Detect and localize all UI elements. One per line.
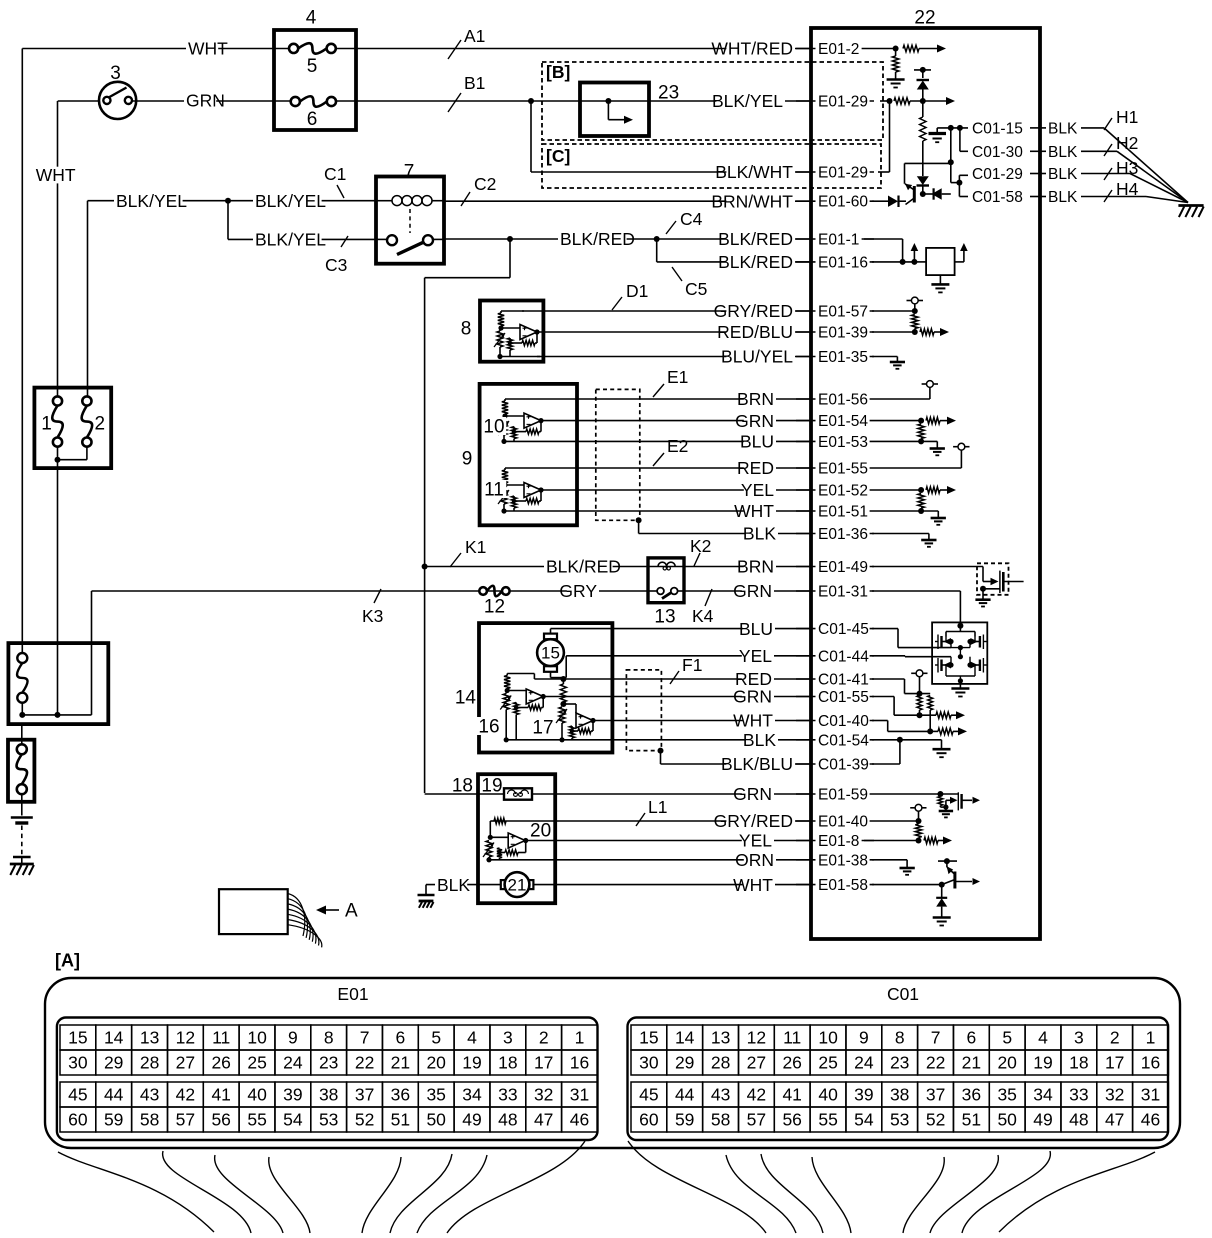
node H1	[1104, 107, 1138, 130]
svg-text:F1: F1	[682, 655, 702, 675]
amplifier 16	[477, 674, 811, 743]
ECU diode to base	[923, 188, 951, 199]
svg-text:60: 60	[68, 1110, 88, 1130]
svg-text:BLK/RED: BLK/RED	[718, 229, 793, 249]
wire GRN switch to fuse 6	[132, 91, 291, 111]
pin E01-36	[796, 526, 874, 543]
svg-text:C4: C4	[680, 209, 703, 229]
ignition relay box (lower left)	[8, 643, 108, 724]
svg-text:K1: K1	[465, 537, 486, 557]
svg-text:6: 6	[307, 109, 318, 130]
node D1	[612, 281, 648, 310]
svg-text:E01-16: E01-16	[818, 254, 868, 271]
svg-text:51: 51	[391, 1110, 410, 1130]
svg-text:23: 23	[890, 1053, 909, 1073]
svg-text:E01: E01	[337, 984, 368, 1004]
pin E01-59	[796, 787, 874, 804]
svg-text:8: 8	[895, 1028, 905, 1048]
node K3	[362, 589, 383, 626]
node C2 / wire BRN/WHT to E01-60	[444, 174, 811, 211]
svg-text:13: 13	[140, 1028, 159, 1048]
ECU switch contact E01-55	[874, 443, 970, 468]
svg-text:3: 3	[1074, 1028, 1084, 1048]
node E2	[653, 436, 688, 466]
ECU circuit E01-54/53	[874, 417, 956, 456]
fuse 5	[289, 43, 336, 77]
ECU circuit E01-52/51	[874, 486, 956, 525]
wire B1 fuse6 to E01-29	[336, 98, 811, 104]
ECU circuit C01-40	[872, 721, 967, 736]
svg-text:37: 37	[355, 1085, 374, 1105]
svg-text:GRN: GRN	[735, 411, 774, 431]
node E1	[653, 367, 688, 397]
svg-text:26: 26	[782, 1053, 801, 1073]
svg-text:33: 33	[498, 1085, 517, 1105]
svg-text:RED: RED	[737, 458, 774, 478]
svg-text:18: 18	[1069, 1053, 1088, 1073]
pin C01-44	[796, 648, 874, 665]
svg-text:E01-51: E01-51	[818, 504, 868, 521]
relay 13	[648, 558, 684, 628]
svg-text:56: 56	[782, 1110, 801, 1130]
svg-text:19: 19	[462, 1053, 481, 1073]
svg-text:6: 6	[967, 1028, 977, 1048]
svg-text:E01-8: E01-8	[818, 833, 859, 850]
wire BLK/WHT to E01-29	[531, 101, 811, 182]
svg-text:40: 40	[818, 1085, 838, 1105]
pin E01-31	[796, 584, 874, 601]
connector C01 pin grid 1-60	[631, 1025, 1168, 1132]
svg-text:10: 10	[818, 1028, 838, 1048]
svg-text:48: 48	[1069, 1110, 1088, 1130]
svg-text:18: 18	[498, 1053, 517, 1073]
svg-text:BRN: BRN	[737, 389, 774, 409]
amplifier 20	[483, 818, 553, 862]
fuse 2	[82, 396, 105, 446]
wire WHT to E01-58	[533, 875, 811, 895]
wire RED to E01-55	[524, 458, 811, 478]
svg-text:13: 13	[654, 607, 675, 628]
wire ORN to E01-38 bottom rail	[489, 850, 811, 870]
pin E01-29	[796, 165, 874, 182]
switch 3 (ignition switch)	[58, 63, 137, 119]
svg-text:20: 20	[530, 821, 551, 842]
node L1	[636, 797, 667, 826]
svg-text:E01-1: E01-1	[818, 232, 859, 249]
svg-text:31: 31	[1141, 1085, 1160, 1105]
svg-text:47: 47	[1105, 1110, 1124, 1130]
svg-text:30: 30	[639, 1053, 659, 1073]
svg-text:23: 23	[319, 1053, 338, 1073]
connector component A	[219, 889, 358, 947]
svg-text:57: 57	[747, 1110, 766, 1130]
wire YEL to C01-44	[551, 646, 812, 678]
svg-text:E01-60: E01-60	[818, 194, 868, 211]
svg-text:51: 51	[962, 1110, 981, 1130]
battery symbol	[11, 818, 33, 858]
amplifier 17	[531, 679, 596, 742]
ECU ground C01-54/39	[872, 737, 951, 764]
svg-text:52: 52	[355, 1110, 374, 1130]
svg-text:E01-35: E01-35	[818, 349, 868, 366]
svg-text:53: 53	[319, 1110, 338, 1130]
svg-text:48: 48	[498, 1110, 517, 1130]
svg-text:24: 24	[283, 1053, 303, 1073]
wire WHT battery feed	[22, 39, 811, 653]
svg-text:32: 32	[534, 1085, 553, 1105]
svg-text:15: 15	[68, 1028, 87, 1048]
pin C01-58	[970, 189, 1078, 206]
pin C01-41	[796, 672, 874, 689]
wire BRN to E01-56	[524, 389, 811, 409]
wire fuse outputs join	[55, 447, 87, 715]
svg-text:41: 41	[782, 1085, 801, 1105]
pin E01-1	[796, 232, 874, 249]
svg-text:WHT: WHT	[733, 711, 773, 731]
ECU circuit E01-29 zener clamp	[880, 67, 955, 105]
coil element in relay box	[17, 653, 28, 715]
svg-text:55: 55	[247, 1110, 266, 1130]
svg-text:GRN: GRN	[186, 91, 225, 111]
svg-text:BLK: BLK	[1048, 166, 1078, 183]
actuator box 14	[455, 623, 613, 752]
pin C01-29	[970, 166, 1078, 183]
connector E01 pin grid 1-60	[60, 1025, 597, 1132]
svg-text:BLK/YEL: BLK/YEL	[712, 91, 783, 111]
svg-text:C01-58: C01-58	[972, 189, 1023, 206]
svg-text:44: 44	[104, 1085, 124, 1105]
wire BLU to C01-45	[551, 619, 812, 639]
svg-text:GRN: GRN	[733, 581, 772, 601]
component 23 (clutch switch)	[580, 83, 679, 137]
ECU transistor (driver)	[905, 163, 951, 204]
wire GRY with fuse 12	[92, 581, 649, 601]
connector C01 block	[628, 1018, 1169, 1141]
svg-text:7: 7	[404, 162, 415, 183]
svg-text:[B]: [B]	[546, 62, 570, 82]
svg-text:2: 2	[95, 414, 106, 435]
relay box bottom rail	[19, 712, 91, 718]
speed sensor 19	[481, 776, 532, 800]
pin E01-51	[796, 504, 874, 521]
svg-text:GRY: GRY	[559, 581, 597, 601]
amplifier 11	[482, 468, 544, 514]
pin C01-55	[796, 689, 874, 706]
svg-text:52: 52	[926, 1110, 945, 1130]
svg-text:35: 35	[426, 1085, 445, 1105]
svg-text:L1: L1	[648, 797, 667, 817]
node C3	[325, 236, 348, 275]
wire GRY feed vertical	[91, 591, 93, 715]
svg-text:WHT: WHT	[188, 39, 228, 59]
svg-text:12: 12	[484, 597, 505, 618]
svg-text:BLK: BLK	[743, 730, 776, 750]
pin E01-49	[796, 559, 874, 576]
svg-text:22: 22	[926, 1053, 945, 1073]
wire GRN to C01-55	[542, 687, 811, 707]
ECU H-bridge motor driver	[932, 622, 987, 696]
wire GRN to E01-59	[425, 784, 811, 804]
svg-text:25: 25	[818, 1053, 837, 1073]
svg-text:50: 50	[426, 1110, 446, 1130]
svg-text:A1: A1	[464, 26, 485, 46]
wire BLK motor ground	[426, 875, 501, 895]
node K1	[450, 537, 486, 567]
svg-text:2: 2	[1110, 1028, 1120, 1048]
svg-text:35: 35	[997, 1085, 1016, 1105]
svg-text:4: 4	[306, 8, 317, 29]
svg-text:57: 57	[176, 1110, 195, 1130]
svg-text:59: 59	[675, 1110, 694, 1130]
motor 21	[501, 872, 534, 897]
svg-text:20: 20	[426, 1053, 446, 1073]
pin E01-8	[796, 833, 874, 850]
wire BLK/RED to relay 13 coil	[425, 557, 648, 577]
sensor box 9	[462, 384, 577, 525]
svg-text:42: 42	[747, 1085, 766, 1105]
connector housing	[45, 978, 1180, 1148]
wire BLK/BLU to C01-39	[661, 751, 812, 775]
svg-text:GRY/RED: GRY/RED	[714, 301, 793, 321]
svg-text:WHT/RED: WHT/RED	[711, 39, 793, 59]
connector C01 label	[887, 984, 919, 1004]
svg-text:11: 11	[212, 1028, 230, 1048]
node C1	[324, 164, 346, 198]
svg-text:H3: H3	[1116, 158, 1138, 178]
svg-text:12: 12	[176, 1028, 195, 1048]
svg-text:56: 56	[211, 1110, 230, 1130]
svg-text:GRN: GRN	[733, 784, 772, 804]
svg-text:E01-52: E01-52	[818, 483, 868, 500]
svg-text:16: 16	[1141, 1053, 1160, 1073]
ECU ground node C01-15/30	[929, 125, 969, 142]
shield box E1/E2	[596, 389, 642, 523]
connector E01 block	[57, 1018, 598, 1141]
svg-text:19: 19	[1033, 1053, 1052, 1073]
svg-text:29: 29	[104, 1053, 123, 1073]
svg-text:29: 29	[675, 1053, 694, 1073]
svg-text:5: 5	[307, 56, 318, 77]
ECU resistor to transistor	[917, 101, 930, 197]
svg-text:C01-40: C01-40	[818, 713, 869, 730]
svg-text:E01-57: E01-57	[818, 304, 868, 321]
pin C01-15	[970, 120, 1078, 137]
svg-text:54: 54	[283, 1110, 303, 1130]
svg-text:GRN: GRN	[733, 687, 772, 707]
svg-text:9: 9	[462, 449, 473, 470]
svg-text:H2: H2	[1116, 133, 1138, 153]
svg-text:10: 10	[483, 417, 504, 438]
ECU MOSFET E01-59	[874, 791, 980, 817]
wire WHT vertical to fuse 1	[36, 101, 76, 396]
wire WHT to C01-40	[593, 711, 811, 731]
motor 15	[537, 634, 564, 672]
fusible link box	[8, 740, 34, 802]
relay 7	[376, 162, 444, 264]
pin E01-54	[796, 413, 874, 430]
wire C01-45 into bridge	[872, 629, 951, 648]
pin E01-39	[796, 325, 874, 342]
svg-text:WHT: WHT	[36, 165, 76, 185]
svg-text:11: 11	[783, 1028, 801, 1048]
svg-text:49: 49	[1033, 1110, 1052, 1130]
svg-text:14: 14	[675, 1028, 695, 1048]
svg-text:8: 8	[461, 319, 472, 340]
svg-text:44: 44	[675, 1085, 695, 1105]
svg-text:15: 15	[541, 644, 560, 663]
svg-text:27: 27	[176, 1053, 195, 1073]
svg-text:C01: C01	[887, 984, 919, 1004]
pin E01-35	[796, 349, 874, 366]
wire BLK/RED to E01-16	[657, 239, 811, 272]
svg-text:26: 26	[211, 1053, 230, 1073]
ECU circuit E01-40/8	[864, 804, 952, 844]
svg-text:E01-54: E01-54	[818, 413, 868, 430]
fuse 6	[291, 96, 336, 130]
svg-text:BLK/RED: BLK/RED	[560, 229, 635, 249]
svg-text:GRY/RED: GRY/RED	[714, 811, 793, 831]
wire BLK/RED relay output	[444, 229, 811, 249]
svg-text:B1: B1	[464, 73, 485, 93]
svg-text:E01-59: E01-59	[818, 787, 868, 804]
svg-text:58: 58	[711, 1110, 730, 1130]
wire GRY/RED to E01-57	[522, 301, 811, 321]
svg-text:E01-38: E01-38	[818, 852, 868, 869]
node A1	[448, 26, 485, 59]
ECU box 22	[811, 8, 1040, 939]
pin C01-40	[796, 713, 874, 730]
svg-text:36: 36	[391, 1085, 410, 1105]
dashed option box [B]	[542, 62, 883, 140]
svg-text:WHT: WHT	[734, 501, 774, 521]
svg-text:C01-39: C01-39	[818, 757, 869, 774]
svg-text:BLK/WHT: BLK/WHT	[715, 162, 793, 182]
svg-text:11: 11	[484, 480, 504, 501]
pin E01-60	[796, 194, 874, 211]
wires H1-H4 to chassis ground	[1081, 128, 1188, 203]
svg-text:6: 6	[396, 1028, 406, 1048]
svg-text:E01-2: E01-2	[818, 41, 859, 58]
svg-text:36: 36	[962, 1085, 981, 1105]
svg-text:1: 1	[1146, 1028, 1156, 1048]
svg-text:1: 1	[41, 414, 52, 435]
svg-text:BLK: BLK	[743, 524, 776, 544]
pin E01-29	[796, 94, 874, 111]
svg-text:C01-45: C01-45	[818, 621, 869, 638]
pin E01-52	[796, 483, 874, 500]
svg-text:16: 16	[570, 1053, 589, 1073]
svg-text:40: 40	[247, 1085, 267, 1105]
wire YEL to E01-8	[526, 831, 811, 851]
ECU ground E01-38	[872, 860, 915, 875]
svg-text:3: 3	[110, 63, 121, 84]
svg-text:E01-40: E01-40	[818, 814, 868, 831]
pin E01-16	[796, 254, 874, 271]
svg-text:46: 46	[570, 1110, 589, 1130]
ECU MOSFET E01-49	[872, 563, 1024, 606]
wire BLK/YEL label	[712, 91, 785, 111]
svg-text:BRN: BRN	[737, 557, 774, 577]
wire BLU/YEL to E01-35	[537, 347, 811, 367]
svg-text:9: 9	[859, 1028, 869, 1048]
svg-text:5: 5	[431, 1028, 441, 1048]
svg-text:55: 55	[818, 1110, 837, 1130]
svg-text:34: 34	[1033, 1085, 1053, 1105]
ECU ground E01-35	[872, 357, 905, 369]
pin E01-55	[796, 461, 874, 478]
svg-text:54: 54	[854, 1110, 874, 1130]
svg-text:E01-53: E01-53	[818, 434, 868, 451]
svg-text:BLU: BLU	[740, 432, 774, 452]
chassis ground (H wires)	[1178, 206, 1203, 218]
ECU wire E01-31 to H-bridge	[872, 591, 960, 626]
svg-text:39: 39	[283, 1085, 302, 1105]
pin E01-57	[796, 304, 874, 321]
svg-text:E2: E2	[667, 436, 688, 456]
svg-text:24: 24	[854, 1053, 874, 1073]
svg-text:C1: C1	[324, 164, 346, 184]
svg-text:4: 4	[1038, 1028, 1048, 1048]
svg-text:E01-29: E01-29	[818, 94, 868, 111]
svg-text:32: 32	[1105, 1085, 1124, 1105]
wire RED/BLU to E01-39	[537, 322, 811, 342]
shield box F1	[626, 670, 663, 754]
node K2 / wire BRN to E01-49	[684, 536, 811, 577]
svg-text:K3: K3	[362, 606, 383, 626]
svg-text:C01-55: C01-55	[818, 689, 869, 706]
ECU circuit E01-57/39	[872, 297, 949, 336]
ECU circuit C01-41 pull-up	[872, 670, 933, 732]
fusible link	[17, 724, 28, 815]
svg-text:E01-29: E01-29	[818, 165, 868, 182]
svg-text:A: A	[345, 901, 358, 922]
svg-text:BLK: BLK	[1048, 120, 1078, 137]
svg-text:C2: C2	[474, 174, 496, 194]
svg-text:9: 9	[288, 1028, 298, 1048]
node H2	[1104, 133, 1138, 156]
svg-text:45: 45	[68, 1085, 87, 1105]
svg-text:30: 30	[68, 1053, 88, 1073]
svg-text:50: 50	[997, 1110, 1017, 1130]
svg-text:43: 43	[140, 1085, 159, 1105]
fuse box 1/2	[34, 388, 111, 469]
svg-text:39: 39	[854, 1085, 873, 1105]
ECU ground E01-36	[872, 534, 937, 547]
svg-text:YEL: YEL	[739, 646, 772, 666]
svg-text:BLK/RED: BLK/RED	[718, 252, 793, 272]
pin E01-56	[796, 392, 874, 409]
wire C01-30 tie	[960, 128, 968, 151]
svg-text:49: 49	[462, 1110, 481, 1130]
svg-text:BLK/YEL: BLK/YEL	[116, 191, 187, 211]
pin E01-53	[796, 434, 874, 451]
svg-text:2: 2	[539, 1028, 549, 1048]
svg-text:E01-49: E01-49	[818, 559, 868, 576]
svg-text:17: 17	[1105, 1053, 1124, 1073]
svg-text:59: 59	[104, 1110, 123, 1130]
ECU E01-29 pins tie	[878, 101, 890, 172]
svg-text:ORN: ORN	[735, 850, 774, 870]
svg-text:21: 21	[962, 1053, 981, 1073]
sensor box 8	[461, 301, 544, 362]
node H4	[1104, 179, 1139, 202]
svg-text:53: 53	[890, 1110, 909, 1130]
fuse box 4	[274, 8, 356, 130]
svg-text:YEL: YEL	[739, 831, 772, 851]
wire C01-29/58 tie	[948, 128, 968, 197]
svg-text:BRN/WHT: BRN/WHT	[711, 191, 793, 211]
svg-text:[A]: [A]	[55, 950, 80, 970]
